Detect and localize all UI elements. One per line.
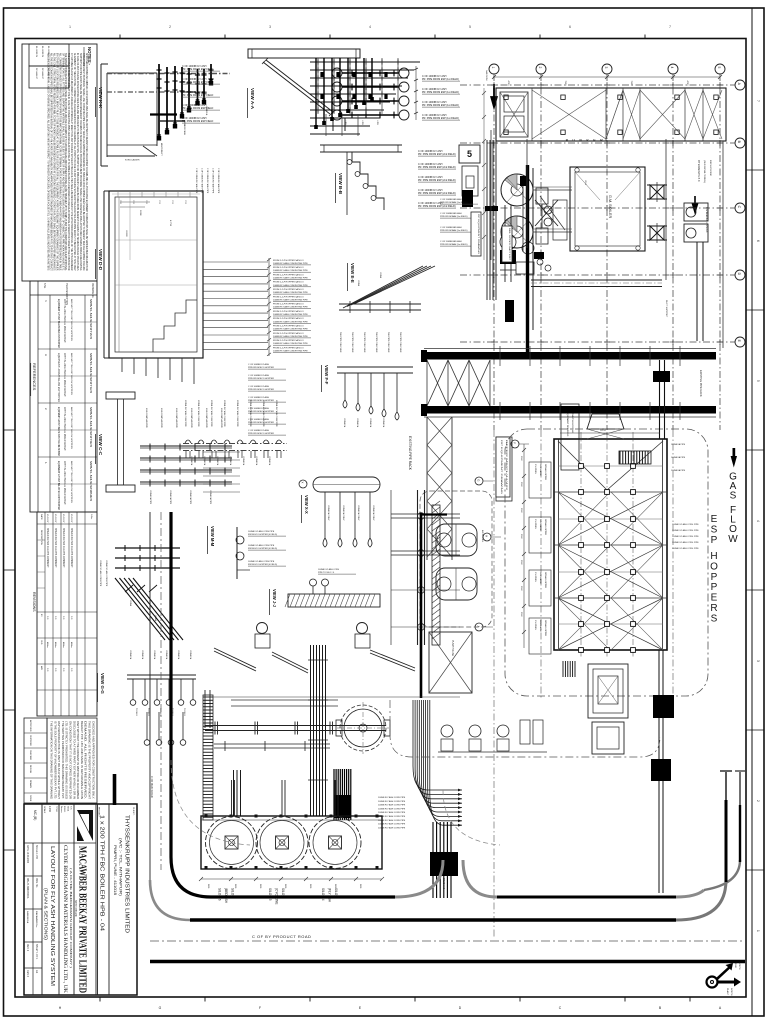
svg-text:1.: 1. [44, 462, 48, 464]
svg-text:100NB FA: 100NB FA [141, 650, 144, 660]
svg-text:2750: 2750 [184, 200, 186, 204]
svg-text:AND WETTING UNIT BELOW HOPPERS: AND WETTING UNIT BELOW HOPPERS [70, 407, 73, 450]
svg-text:CLYDE BERGEMANN MATERIALS HAND: CLYDE BERGEMANN MATERIALS HANDLING LTD.,… [62, 845, 68, 993]
approval stamp boxes [24, 718, 47, 803]
svg-text:11124: 11124 [600, 430, 607, 432]
svg-text:X: X [301, 482, 305, 484]
svg-text:VIEW E-E: VIEW E-E [350, 263, 355, 283]
svg-text:4 NB COMP AIR PIPE: 4 NB COMP AIR PIPE [220, 408, 223, 429]
esp inlet boxes [544, 206, 552, 214]
svg-text:100NB FLY ASH CONV PIPE: 100NB FLY ASH CONV PIPE [378, 800, 406, 803]
svg-text:CERTIFIED: CERTIFIED [29, 735, 31, 746]
svg-text:3: 3 [604, 67, 608, 69]
esp casing rect [554, 439, 667, 650]
esp centerlines [580, 432, 582, 658]
svg-text:C OF 100NB FLY ASH: C OF 100NB FLY ASH [248, 363, 269, 366]
svg-text:100NB FLY ASH CONV PIPE: 100NB FLY ASH CONV PIPE [248, 560, 275, 563]
main road vertical edges [149, 512, 151, 880]
svg-text:ISSUED AS PER CLIENTS COMMENT.: ISSUED AS PER CLIENTS COMMENT. [62, 528, 65, 568]
svg-text:SCALE: SCALE [43, 806, 46, 814]
svg-text:100NB FA: 100NB FA [165, 650, 168, 660]
svg-text:NEW DELHI: NEW DELHI [74, 900, 78, 917]
svg-text:MBL SCOPE BATTERY: MBL SCOPE BATTERY [508, 228, 511, 261]
svg-text:100NB FLY ASH CONV PIPE: 100NB FLY ASH CONV PIPE [378, 811, 406, 814]
svg-text:100NB FA: 100NB FA [382, 418, 385, 428]
silo circle SILO # 4 [309, 817, 361, 869]
svg-text:C OF 100NB FLY ASH PIPE: C OF 100NB FLY ASH PIPE [195, 168, 198, 194]
svg-text:3: 3 [269, 25, 271, 29]
svg-text:EXISTING PIPE RACK: EXISTING PIPE RACK [408, 436, 412, 471]
svg-text:C OF 100NB FLY ASH: C OF 100NB FLY ASH [248, 374, 269, 377]
dim ticks column [483, 88, 485, 260]
svg-text:PR. PIPE FROM ESP (1st FIELD): PR. PIPE FROM ESP (1st FIELD) [422, 117, 459, 120]
view G-G header bar [127, 674, 196, 676]
svg-text:PR. PIPE FROM ESP (2nd FIELD): PR. PIPE FROM ESP (2nd FIELD) [418, 166, 456, 169]
svg-text:PR. PIPE FROM ESP FIELD: PR. PIPE FROM ESP FIELD [182, 94, 213, 97]
air vessel 2 [436, 568, 477, 600]
svg-text:S.No.: S.No. [43, 283, 45, 289]
north arrow symbol [707, 977, 718, 988]
svg-text:100NB FLY ASH CONV PIPE: 100NB FLY ASH CONV PIPE [223, 400, 226, 427]
svg-text:CHECKED: CHECKED [29, 750, 31, 761]
svg-text:PIPE FROM BAH (1st FIELD): PIPE FROM BAH (1st FIELD) [440, 201, 468, 204]
svg-text:2 W PRES.: 2 W PRES. [534, 464, 536, 475]
svg-text:PIPE TO SILO # 4: PIPE TO SILO # 4 [318, 572, 335, 574]
svg-text:15.03.07: 15.03.07 [46, 514, 48, 523]
svg-text:2.: 2. [44, 408, 48, 410]
svg-text:3.: 3. [44, 354, 48, 356]
esp top grate [620, 451, 648, 464]
grid intersection ticks [491, 84, 497, 86]
svg-text:PIPE FROM ECO HOPPER: PIPE FROM ECO HOPPER [248, 367, 274, 369]
svg-text:E: E [711, 593, 718, 604]
svg-text:AND WETTING UNIT BELOW HOPPERS: AND WETTING UNIT BELOW HOPPERS [70, 461, 73, 504]
view G-G tier 2 [146, 712, 148, 740]
svg-text:5: 5 [717, 67, 721, 69]
second flow arrow [693, 196, 698, 212]
svg-text:FROM 1-2-P HOPPER 5A NO.3: FROM 1-2-P HOPPER 5A NO.3 [273, 259, 304, 262]
svg-text:4 NB COMP AIR PIPE: 4 NB COMP AIR PIPE [190, 408, 193, 429]
svg-text:S.S.: S.S. [70, 806, 72, 811]
esp top transition duct [587, 414, 592, 429]
svg-text:FROM 1-2-P HOPPER 5A NO.3: FROM 1-2-P HOPPER 5A NO.3 [273, 325, 304, 328]
svg-text:(A/C :- TCL, MITHAPUR): (A/C :- TCL, MITHAPUR) [119, 838, 123, 896]
svg-text:100NB FLY ASH CONV: 100NB FLY ASH CONV [318, 568, 340, 571]
svg-text:100NB FLY ASH CONVEYING PIPE: 100NB FLY ASH CONVEYING PIPE [273, 350, 308, 353]
svg-text:1:150: 1:150 [48, 806, 51, 813]
top cluster verticals [317, 58, 319, 114]
svg-text:DRAWN: DRAWN [29, 780, 32, 788]
svg-text:100NB FLY ASH CONV PIPE: 100NB FLY ASH CONV PIPE [105, 560, 108, 587]
svg-text:WITH SLUICE PADDLE MIXER ARRGT: WITH SLUICE PADDLE MIXER ARRGT. [63, 407, 66, 451]
svg-text:EQUIPMENT LAYOUT BELOW ESP HOP: EQUIPMENT LAYOUT BELOW ESP HOPPER [57, 353, 60, 402]
svg-text:DRG. No.: DRG. No. [35, 878, 37, 888]
svg-text:M.bks: M.bks [70, 642, 72, 648]
rack truss going south [426, 417, 428, 560]
svg-text:100NB FLY ASH CONV PIPE: 100NB FLY ASH CONV PIPE [262, 400, 265, 427]
svg-text:EQUIPMENT LAYOUT BELOW BED ASH: EQUIPMENT LAYOUT BELOW BED ASH HOPPER [57, 299, 60, 348]
view D-D inner steps [153, 300, 197, 352]
svg-text:S: S [711, 613, 718, 624]
esp mid horizontals [558, 465, 663, 467]
black equipment mark [462, 190, 473, 207]
svg-text:THK PIPE CONV LINE: THK PIPE CONV LINE [375, 332, 377, 353]
svg-text:DISCHARGE: DISCHARGE [539, 464, 542, 477]
svg-text:C/W BEARING COOLING: C/W BEARING COOLING [705, 207, 708, 233]
svg-text:PIPE FROM BAH (1st FIELD): PIPE FROM BAH (1st FIELD) [440, 229, 468, 232]
svg-text:100NB FLY ASH CONV PIPE: 100NB FLY ASH CONV PIPE [275, 400, 278, 427]
svg-text:THK PIPE CONV LINE: THK PIPE CONV LINE [351, 332, 353, 353]
esp grid letter bubbles [511, 440, 519, 448]
svg-text:SHEET 1 OF 1: SHEET 1 OF 1 [35, 944, 37, 960]
svg-text:2750: 2750 [132, 200, 134, 204]
svg-text:DUCT SUPPORT: DUCT SUPPORT [665, 300, 667, 318]
duct down to rack [696, 242, 698, 341]
svg-text:4750: 4750 [686, 81, 688, 87]
svg-text:SILO): SILO) [231, 888, 235, 896]
svg-text:100NB FLY ASH CONV. PIPE: 100NB FLY ASH CONV. PIPE [672, 535, 699, 538]
svg-text:PR. PIPE FROM ESP FIELD: PR. PIPE FROM ESP FIELD [182, 120, 213, 123]
svg-text:VIEW F-F: VIEW F-F [324, 365, 329, 385]
esp plot boundary chain [505, 429, 708, 696]
svg-text:5600: 5600 [207, 884, 209, 888]
client box [108, 804, 110, 995]
svg-text:M.bks: M.bks [62, 642, 64, 648]
svg-text:15.03.07: 15.03.07 [70, 514, 72, 523]
svg-text:4 NB COMP AIR PIPE: 4 NB COMP AIR PIPE [175, 408, 178, 429]
black flow arrow on grid line [491, 84, 497, 107]
svg-text:C OF BY PRODUCT ROAD: C OF BY PRODUCT ROAD [252, 934, 311, 939]
side road vertical edges [725, 772, 727, 800]
svg-text:100NB FLY ASH CONV PIPE: 100NB FLY ASH CONV PIPE [248, 530, 275, 533]
svg-text:C OF 150NB BED ASH: C OF 150NB BED ASH [440, 198, 462, 201]
pump house x-box [429, 632, 472, 693]
view K-K chain headers [107, 73, 230, 75]
view C-C column [106, 392, 135, 399]
byproduct road centerline [150, 940, 745, 942]
view K-K short black header [150, 113, 177, 115]
svg-text:SPIRAL HOPPER: SPIRAL HOPPER [544, 572, 547, 589]
svg-text:WB/D-N44/42971/3: WB/D-N44/42971/3 [89, 353, 92, 394]
silo circle SILO # 5 [256, 817, 308, 869]
svg-text:DEMAND. ALL RIGHTS RESERVED.: DEMAND. ALL RIGHTS RESERVED. [84, 721, 87, 800]
svg-text:SILO # 6: SILO # 6 [218, 888, 222, 901]
svg-text:A1: A1 [35, 970, 39, 974]
svg-text:NORTH: NORTH [730, 988, 732, 996]
svg-text:C OF 100NB FLY ASH PIPE: C OF 100NB FLY ASH PIPE [217, 168, 220, 194]
svg-text:H: H [710, 551, 717, 562]
svg-text:100NB FLY ASH CONV PIPE: 100NB FLY ASH CONV PIPE [378, 804, 406, 807]
svg-text:4.: 4. [44, 300, 48, 302]
thick conveying line [420, 513, 423, 698]
svg-text:100NB FLY ASH CONV PIPE: 100NB FLY ASH CONV PIPE [99, 560, 102, 587]
diagonal feed pipes [214, 648, 256, 668]
frame node circles [418, 513, 425, 520]
equipment drawing label box1 [561, 404, 579, 470]
svg-text:(PLAN & SECTIONS): (PLAN & SECTIONS) [44, 888, 49, 941]
svg-text:C OF 100NB FLY ASH PIPE: C OF 100NB FLY ASH PIPE [201, 168, 204, 194]
esp inlet vertical from rack [659, 360, 661, 439]
top cluster extra pipes [310, 117, 380, 119]
grid chain extensions south [540, 430, 542, 700]
bowtie fan symbols [650, 185, 664, 199]
svg-text:PIPE FROM BAH (1st FIELD): PIPE FROM BAH (1st FIELD) [440, 243, 468, 246]
svg-text:100NB: 100NB [379, 272, 381, 279]
svg-text:7500: 7500 [564, 81, 566, 87]
svg-text:100NB FLY ASH CONVEYING PIPE: 100NB FLY ASH CONVEYING PIPE [273, 277, 308, 280]
svg-text:ISSUED AS PER CLIENTS COMMENT.: ISSUED AS PER CLIENTS COMMENT. [46, 528, 49, 568]
silo battery box [201, 816, 382, 869]
svg-text:MACAWBER No.: MACAWBER No. [35, 911, 38, 928]
boiler box [570, 167, 645, 251]
vertical pipe bundle center [311, 645, 326, 816]
esp node squares [579, 464, 584, 469]
svg-text:4 NB COMP AIR PIPE: 4 NB COMP AIR PIPE [145, 408, 148, 429]
silo feed crossties [231, 699, 338, 701]
svg-text:A/R VESSEL: A/R VESSEL [481, 530, 484, 543]
silo road right stub up [395, 860, 443, 897]
svg-text:FROM ECO HOPPER (4 FIELD): FROM ECO HOPPER (4 FIELD) [248, 564, 277, 566]
view K-K hopper box [107, 72, 157, 74]
band support ticks [499, 346, 501, 366]
svg-text:FLY ASH P: FLY ASH P [35, 68, 38, 79]
svg-text:1 x 200 TPH FBC BOILER HPB - 0: 1 x 200 TPH FBC BOILER HPB - 04 [99, 815, 105, 931]
svg-text:THIS DRAWING IS THE PROPERTY A: THIS DRAWING IS THE PROPERTY AND COPYRIG… [88, 721, 91, 800]
svg-text:4: 4 [756, 520, 760, 522]
svg-text:BEEKAY PVT. LTD. AND SAME IS R: BEEKAY PVT. LTD. AND SAME IS RETURNABLE … [80, 721, 83, 799]
svg-text:100NB FA CONV: 100NB FA CONV [372, 505, 375, 521]
svg-text:100NB: 100NB [357, 280, 359, 287]
svg-text:100NB FLY ASH CONVEYING PIPE: 100NB FLY ASH CONVEYING PIPE [273, 342, 308, 345]
pipe elbow up [204, 690, 206, 728]
svg-text:100NB FA: 100NB FA [343, 418, 346, 428]
svg-text:FROM 1-2-P HOPPER 5A NO.3: FROM 1-2-P HOPPER 5A NO.3 [273, 303, 304, 306]
svg-text:100NB FLY ASH CONVEYING PIPE: 100NB FLY ASH CONVEYING PIPE [273, 291, 308, 294]
svg-text:ISSUED AS PER CLIENTS COMMENT.: ISSUED AS PER CLIENTS COMMENT. [54, 528, 57, 568]
extra leader rows below D-D [203, 451, 240, 453]
svg-text:2: 2 [169, 25, 171, 29]
svg-text:PR. PIPE FROM ESP FIELD: PR. PIPE FROM ESP FIELD [182, 81, 213, 84]
svg-text:FROM 1-2-P HOPPER 5A NO.3: FROM 1-2-P HOPPER 5A NO.3 [273, 346, 304, 349]
svg-text:6: 6 [756, 240, 760, 242]
svg-text:P: P [711, 535, 718, 546]
svg-text:VIEW G-G: VIEW G-G [100, 673, 105, 694]
svg-text:DATE 10.04.2006: DATE 10.04.2006 [26, 845, 29, 864]
svg-text:DISCHARGE: DISCHARGE [539, 572, 542, 585]
svg-text:100NB FLY ASH CONVEYING PIPE: 100NB FLY ASH CONVEYING PIPE [273, 269, 308, 272]
svg-text:FROM 1-2-P HOPPER 5A NO.3: FROM 1-2-P HOPPER 5A NO.3 [273, 339, 304, 342]
svg-text:100NB FLY ASH CONV PIPE: 100NB FLY ASH CONV PIPE [197, 400, 200, 427]
svg-text:100NB FA: 100NB FA [255, 456, 258, 466]
svg-text:100NB FLY ASH CONVEYING PIPE: 100NB FLY ASH CONVEYING PIPE [273, 335, 308, 338]
svg-text:DISCLOSED TO A THIRD PARTY EIT: DISCLOSED TO A THIRD PARTY EITHER WHOLLY… [72, 721, 75, 799]
svg-text:15.03.07: 15.03.07 [54, 514, 56, 523]
svg-text:PR. PIPE FROM ESP (1st FIELD): PR. PIPE FROM ESP (1st FIELD) [422, 104, 459, 107]
svg-text:VIEW C-C: VIEW C-C [98, 434, 103, 456]
hatched column [432, 505, 440, 645]
rack section clamps [185, 440, 191, 443]
svg-text:VIEW J-J: VIEW J-J [272, 589, 277, 608]
esp hopper label boxes [529, 462, 551, 498]
svg-text:5600: 5600 [284, 884, 286, 888]
svg-text:2750: 2750 [171, 200, 173, 204]
zone ticks top frame [119, 35, 121, 39]
svg-text:PIMPRI, PUNE - 411018: PIMPRI, PUNE - 411018 [113, 845, 117, 895]
view K-K vertical ash pipes [158, 64, 160, 139]
svg-text:C OF 100NB FLY ASH PIPE: C OF 100NB FLY ASH PIPE [212, 168, 215, 194]
dim line right of A-A [415, 66, 417, 120]
svg-text:100NB FA CONV: 100NB FA CONV [357, 505, 360, 521]
svg-text:O: O [710, 561, 718, 572]
svg-text:DP EQUIPMENT DRAWING: DP EQUIPMENT DRAWING [477, 214, 480, 255]
rack end caps [421, 350, 427, 362]
view B-B drops [352, 152, 384, 210]
svg-text:100NB FA CONV: 100NB FA CONV [342, 505, 345, 521]
svg-text:EQUIPMENT LAYOUT BELOW W/H CYC: EQUIPMENT LAYOUT BELOW W/H CYCLONE HOPPE… [57, 407, 60, 456]
svg-text:ISSUED AS PER CLIENTS COMMENT.: ISSUED AS PER CLIENTS COMMENT. [70, 528, 73, 568]
svg-text:CLIENT :: CLIENT : [132, 807, 134, 816]
view A-A pipes with lug ends [332, 68, 342, 78]
svg-text:2750: 2750 [145, 200, 147, 204]
view A-A riser [332, 118, 334, 131]
svg-text:C OF 100NB FLY ASH PIPE: C OF 100NB FLY ASH PIPE [206, 168, 209, 194]
svg-text:SILO): SILO) [334, 888, 338, 896]
svg-text:2 W PRES.: 2 W PRES. [534, 572, 536, 583]
svg-text:100NB FA: 100NB FA [177, 650, 180, 660]
zone ticks left margin [4, 149, 16, 151]
byproduct road lower edge [150, 960, 745, 964]
view D-D bottom drops [121, 358, 123, 372]
svg-text:4-2750: 4-2750 [169, 220, 171, 226]
svg-text:THE INFORMATION ON THIS DRAWIN: THE INFORMATION ON THIS DRAWING OF THIS … [50, 721, 53, 799]
svg-text:100NB FA: 100NB FA [216, 456, 219, 466]
svg-text:2750: 2750 [119, 200, 121, 204]
svg-text:APPROVED DRAWING NO. MB/D-N44: APPROVED DRAWING NO. MB/D-N44 FOR HOPPER… [85, 53, 89, 271]
small data boxes top-left [29, 44, 69, 66]
pipe rack band 1 [424, 352, 716, 360]
vertical line left of plan [490, 130, 492, 260]
grid letter bubbles right col [735, 80, 745, 90]
svg-text:100NB FLY ASH CONV PIPE: 100NB FLY ASH CONV PIPE [184, 400, 187, 427]
left small bundle [233, 770, 235, 816]
svg-text:PR. PIPE FROM ESP (1st FIELD): PR. PIPE FROM ESP (1st FIELD) [422, 78, 459, 81]
svg-text:MC-(B): MC-(B) [33, 810, 37, 820]
svg-text:E: E [711, 514, 718, 525]
svg-text:PR. PIPE FROM ESP (2nd FIELD): PR. PIPE FROM ESP (2nd FIELD) [418, 192, 456, 195]
view A-A top beam [248, 49, 360, 58]
svg-text:15.03.07: 15.03.07 [62, 514, 64, 523]
svg-text:DISCHARGE: DISCHARGE [539, 519, 542, 532]
svg-text:VIEW M-M: VIEW M-M [210, 526, 215, 547]
svg-text:100NB FLY ASH CONV PIPE: 100NB FLY ASH CONV PIPE [378, 796, 406, 799]
svg-text:THK PIPE CONV LINE: THK PIPE CONV LINE [387, 332, 389, 353]
svg-text:R: R [710, 603, 717, 614]
svg-text:100NB FA: 100NB FA [369, 418, 372, 428]
svg-text:2 W PRES.: 2 W PRES. [534, 620, 536, 631]
svg-text:(OUR DETAIL TERMS): (OUR DETAIL TERMS) [703, 160, 706, 183]
esp x bracing [558, 492, 663, 545]
svg-text:100NB FLY ASH CONV PIPE: 100NB FLY ASH CONV PIPE [249, 400, 252, 427]
svg-text:FROM 1-2-P HOPPER 5A NO.3: FROM 1-2-P HOPPER 5A NO.3 [273, 266, 304, 269]
svg-text:100NB FLY ASH CONV PIPE: 100NB FLY ASH CONV PIPE [378, 807, 406, 810]
view D-D leader rows [203, 261, 268, 263]
svg-text:4750: 4750 [507, 81, 509, 87]
main road label stub [113, 774, 117, 805]
svg-text:FROM 1-2-P HOPPER 5A NO.3: FROM 1-2-P HOPPER 5A NO.3 [273, 288, 304, 291]
svg-text:SILO # 4: SILO # 4 [321, 888, 325, 901]
top dimension row [493, 76, 720, 78]
gas flow arrow [731, 456, 737, 468]
building wall verticals [526, 139, 528, 248]
svg-text:ON CONDITION THAT IT IS NOT CO: ON CONDITION THAT IT IS NOT COPIED REPRI… [69, 721, 72, 799]
bunker rectangle [496, 88, 726, 141]
svg-text:100NB FA PIPE: 100NB FA PIPE [671, 469, 686, 472]
svg-text:100NB FA PIPE: 100NB FA PIPE [169, 490, 172, 505]
top pipe cluster lines [310, 61, 420, 63]
svg-text:100NB FA: 100NB FA [242, 456, 245, 466]
svg-text:100NB FA: 100NB FA [153, 650, 156, 660]
svg-text:7: 7 [669, 25, 671, 29]
svg-text:FROM 1-2-P HOPPER 5A NO.3: FROM 1-2-P HOPPER 5A NO.3 [273, 273, 304, 276]
svg-text:CHD: CHD [40, 640, 42, 645]
svg-text:M.bks: M.bks [54, 642, 56, 648]
ladder strip [203, 695, 213, 820]
svg-text:WITH SLUICE PADDLE MIXER ARRGT: WITH SLUICE PADDLE MIXER ARRGT. [63, 353, 66, 397]
svg-text:100NB FA: 100NB FA [189, 650, 192, 660]
svg-text:AND WETTING UNIT BELOW HOPPERS: AND WETTING UNIT BELOW HOPPERS [70, 353, 73, 396]
svg-text:PR. PIPE FROM ESP (2nd FIELD): PR. PIPE FROM ESP (2nd FIELD) [418, 153, 456, 156]
svg-text:C OF 150NB BED ASH: C OF 150NB BED ASH [440, 226, 462, 229]
svg-text:PIPE FROM ECO HOPPER: PIPE FROM ECO HOPPER [248, 389, 274, 391]
svg-text:100NB FLY ASH CONV. PIPE: 100NB FLY ASH CONV. PIPE [672, 541, 699, 544]
view A-A diagonal brace [263, 62, 330, 114]
svg-text:PLANT: PLANT [726, 988, 729, 996]
zone ticks bottom frame [99, 997, 101, 1002]
svg-text:G: G [476, 479, 480, 481]
zone ticks and numbers right margin [746, 169, 764, 171]
svg-text:W: W [728, 534, 738, 545]
view D-D left bracket [103, 191, 105, 358]
pumps row [441, 725, 453, 737]
svg-text:VIEW B-B: VIEW B-B [338, 173, 343, 195]
bunker bracing [532, 90, 606, 139]
view D-D dim ticks [268, 258, 270, 356]
svg-text:SODB: SODB [139, 210, 141, 216]
svg-text:1: 1 [69, 25, 71, 29]
svg-text:SILO # 5: SILO # 5 [268, 888, 272, 901]
svg-text:2: 2 [756, 800, 760, 802]
view X-X [299, 480, 307, 488]
silo dim row [201, 878, 382, 880]
frame beams [391, 513, 460, 515]
svg-text:5: 5 [467, 149, 472, 159]
title block outline [24, 804, 137, 995]
svg-text:GAS FLOW: GAS FLOW [485, 70, 488, 81]
svg-text:SCALE 1:150: SCALE 1:150 [35, 845, 38, 860]
fly ash pipe fan [413, 700, 462, 790]
svg-text:TRUE: TRUE [734, 962, 736, 968]
svg-text:100NB FA PIPE: 100NB FA PIPE [149, 490, 152, 505]
svg-text:REV 2: REV 2 [26, 970, 29, 978]
svg-text:THE WRITTEN PERMISSION OF MACA: THE WRITTEN PERMISSION OF MACAWBER BEEKA… [61, 721, 64, 799]
id fan units right [684, 203, 708, 221]
horizontal duct to esp [531, 279, 662, 281]
svg-text:C OF 150NB BED ASH: C OF 150NB BED ASH [440, 240, 462, 243]
svg-text:FROM 1-2-P HOPPER 5A NO.3: FROM 1-2-P HOPPER 5A NO.3 [273, 332, 304, 335]
company name [95, 804, 97, 995]
svg-text:3: 3 [756, 660, 760, 662]
svg-text:EL.6080/ M: EL.6080/ M [41, 46, 43, 57]
